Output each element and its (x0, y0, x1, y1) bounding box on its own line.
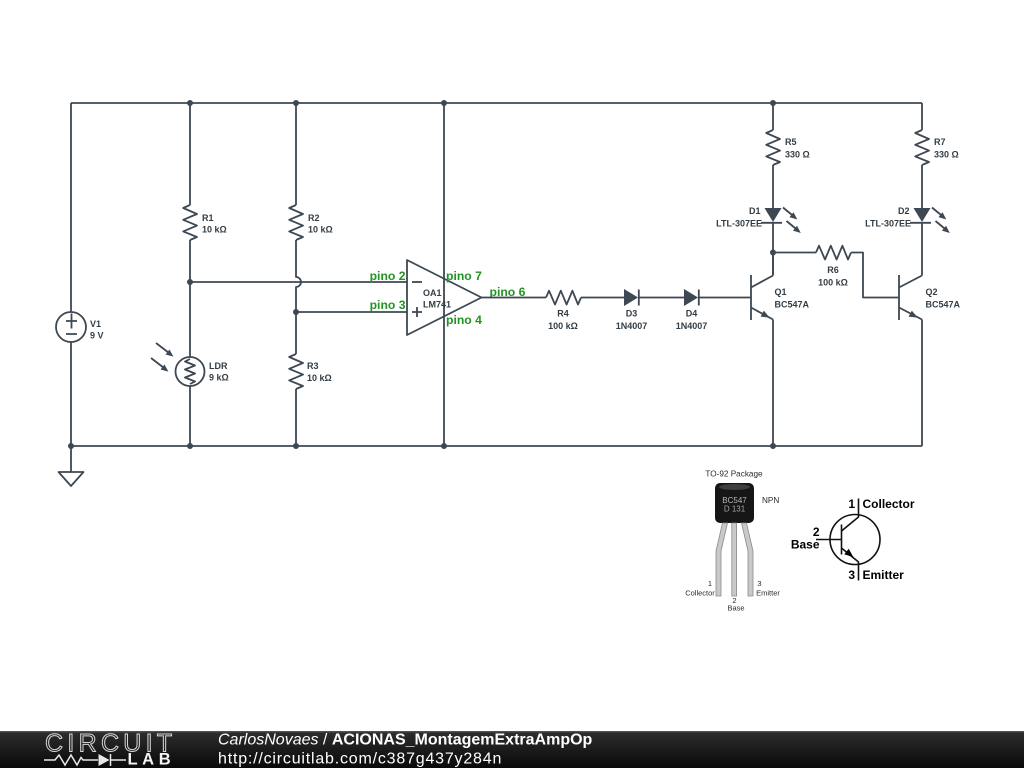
svg-text:Base: Base (791, 538, 820, 552)
svg-text:OA1: OA1 (423, 288, 442, 298)
svg-text:10 kΩ: 10 kΩ (308, 225, 333, 235)
wire node to R6 (773, 252, 816, 254)
resistor R5 (766, 130, 780, 165)
LDR symbol (151, 343, 205, 386)
wire LDR bottom (189, 386, 191, 446)
svg-text:LTL-307EE: LTL-307EE (865, 219, 911, 229)
wire op-amp non-inverting input (pin 3) (296, 311, 407, 313)
wire bottom rail (71, 445, 922, 447)
svg-text:9 V: 9 V (90, 331, 104, 341)
svg-text:http://circuitlab.com/c387g437: http://circuitlab.com/c387g437y284n (218, 751, 502, 768)
svg-text:NPN: NPN (762, 496, 779, 505)
wire R5 column (772, 103, 774, 130)
svg-text:Q2: Q2 (926, 287, 938, 297)
wire R1 to node (189, 240, 191, 357)
wire D3 to D4 (639, 297, 684, 299)
LED D2 (910, 208, 952, 236)
svg-text:R5: R5 (785, 137, 797, 147)
svg-text:LTL-307EE: LTL-307EE (716, 219, 762, 229)
diode D4 (684, 289, 699, 306)
svg-text:D4: D4 (686, 309, 698, 319)
wire Q1 collector up (772, 253, 774, 276)
wire R5 to D1 (772, 165, 774, 208)
junction dots bottom rail (68, 443, 74, 449)
svg-text:R7: R7 (934, 137, 946, 147)
svg-text:330 Ω: 330 Ω (934, 150, 959, 160)
svg-text:10 kΩ: 10 kΩ (202, 225, 227, 235)
svg-text:9 kΩ: 9 kΩ (209, 373, 229, 383)
wire Q2 collector up (921, 223, 923, 276)
wire left rail lower (70, 342, 72, 446)
svg-text:CarlosNovaes / ACIONAS_Montage: CarlosNovaes / ACIONAS_MontagemExtraAmpO… (218, 732, 593, 749)
junction dots top rail (187, 100, 193, 106)
transistor Q1 (751, 275, 773, 321)
svg-text:LDR: LDR (209, 361, 228, 371)
svg-text:V1: V1 (90, 319, 101, 329)
resistor R2 (289, 205, 303, 240)
diode D3 (624, 289, 639, 306)
svg-text:3: 3 (757, 579, 761, 588)
svg-text:1: 1 (708, 579, 712, 588)
resistor R1 (183, 205, 197, 240)
op-amp OA1 (407, 260, 482, 335)
svg-text:TO-92 Package: TO-92 Package (705, 470, 763, 479)
svg-text:D3: D3 (626, 309, 638, 319)
wire R3 bottom (295, 389, 297, 446)
svg-text:Q1: Q1 (775, 287, 787, 297)
wire R7 to D2 (921, 165, 923, 208)
transistor Q2 (899, 275, 922, 321)
junction dot R1-pin2 (187, 279, 193, 285)
ground (59, 446, 84, 486)
wire R4 to D3 (581, 297, 624, 299)
footer bar (0, 730, 1024, 768)
LED D1 (761, 208, 803, 236)
svg-text:1N4007: 1N4007 (676, 321, 708, 331)
svg-text:D2: D2 (898, 206, 910, 216)
resistor R7 (915, 130, 929, 165)
svg-text:100 kΩ: 100 kΩ (818, 278, 848, 288)
svg-text:BC547A: BC547A (775, 300, 810, 310)
wire D1 to collector node (772, 223, 774, 275)
svg-text:pino 3: pino 3 (370, 298, 406, 312)
wire node to R3 (295, 312, 297, 354)
junction dot Q1 collector node (770, 250, 776, 256)
svg-text:1: 1 (848, 497, 855, 511)
svg-text:Base: Base (727, 604, 744, 613)
wire R2 column top (295, 103, 297, 205)
svg-text:1N4007: 1N4007 (616, 321, 648, 331)
wire left rail upper (70, 103, 72, 312)
wire Q2 emitter down (921, 320, 923, 447)
wire R2 with hop over pin2 wire (296, 240, 301, 312)
svg-text:BC547A: BC547A (926, 300, 961, 310)
wire power column through op-amp (443, 103, 445, 446)
svg-text:330 Ω: 330 Ω (785, 150, 810, 160)
svg-text:R4: R4 (557, 309, 569, 319)
svg-text:R1: R1 (202, 213, 214, 223)
wire Q1 emitter down (772, 320, 774, 447)
resistor R4 (546, 291, 581, 305)
resistor R6 (816, 246, 851, 260)
wire R1 column top (189, 103, 191, 205)
wire top rail (71, 102, 922, 104)
wire op-amp inverting input (pin 2) (190, 281, 407, 283)
svg-text:Emitter: Emitter (756, 589, 780, 598)
wire op-amp output (482, 297, 547, 299)
svg-text:D1: D1 (749, 206, 761, 216)
svg-text:pino 4: pino 4 (446, 313, 482, 327)
voltage source V1 (56, 312, 86, 342)
svg-text:R2: R2 (308, 213, 320, 223)
svg-text:Collector: Collector (863, 497, 915, 511)
svg-text:R3: R3 (307, 361, 319, 371)
svg-text:3: 3 (848, 568, 855, 582)
svg-text:Emitter: Emitter (863, 568, 905, 582)
svg-text:10 kΩ: 10 kΩ (307, 373, 332, 383)
svg-text:pino 7: pino 7 (446, 269, 482, 283)
svg-text:LM741: LM741 (423, 300, 451, 310)
svg-text:100 kΩ: 100 kΩ (548, 321, 578, 331)
wire R7 column (921, 103, 923, 130)
svg-text:R6: R6 (827, 265, 839, 275)
svg-text:D 131: D 131 (724, 505, 746, 514)
wire R6 to Q2 base (851, 253, 899, 298)
svg-text:Collector: Collector (685, 589, 715, 598)
junction dot R2-pin3 (293, 309, 299, 315)
svg-text:pino 2: pino 2 (370, 269, 406, 283)
resistor R3 (289, 354, 303, 389)
legs (716, 523, 728, 596)
wire D4 to Q1 base (699, 297, 751, 299)
TO-92 package photo (685, 470, 780, 613)
NPN pinout symbol (791, 497, 915, 582)
svg-text:LAB: LAB (128, 751, 176, 768)
